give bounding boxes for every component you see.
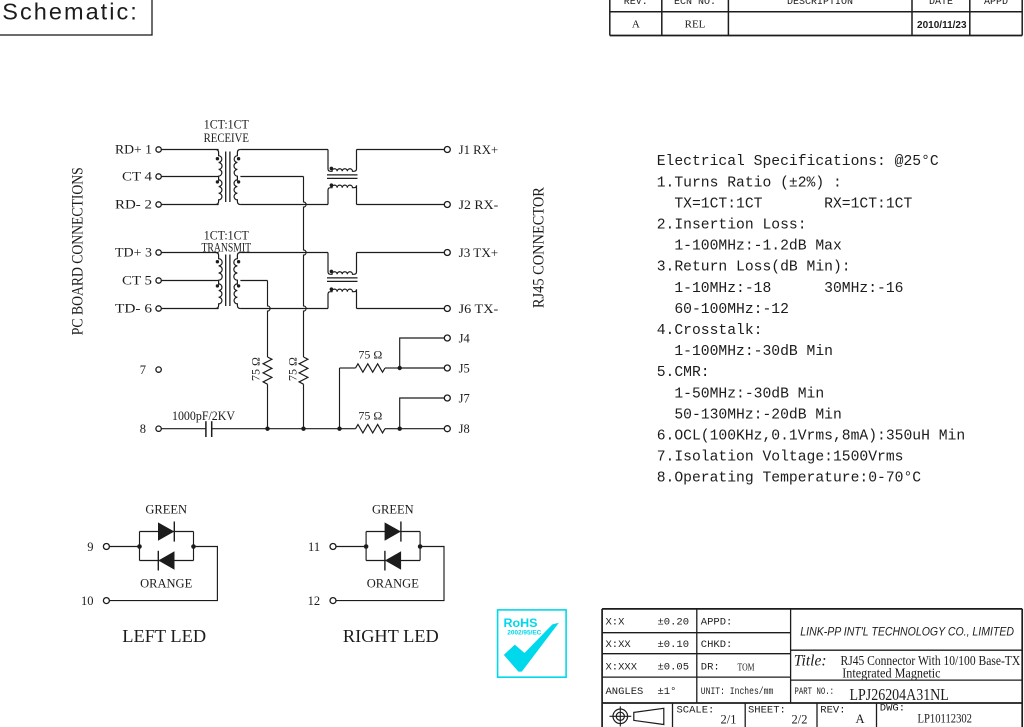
- svg-text:2.Insertion Loss:: 2.Insertion Loss:: [657, 218, 807, 234]
- capacitor C1 1000pF/2KV plates: [205, 421, 207, 437]
- diode LED1 orange: [158, 551, 174, 570]
- svg-text:SCALE:: SCALE:: [677, 705, 715, 717]
- svg-text:SHEET:: SHEET:: [748, 705, 786, 717]
- pin 12 terminal: [330, 598, 336, 604]
- wire pin 11: [336, 546, 366, 548]
- svg-text:ECN NO.: ECN NO.: [674, 0, 716, 8]
- svg-text:RIGHT LED: RIGHT LED: [343, 626, 439, 646]
- svg-text:LINK-PP INT'L TECHNOLOGY CO.,: LINK-PP INT'L TECHNOLOGY CO., LIMITED: [800, 624, 1014, 638]
- terminal J8: [444, 426, 450, 432]
- svg-text:CT 4: CT 4: [122, 170, 153, 184]
- svg-text:ANGLES: ANGLES: [606, 686, 644, 698]
- svg-text:±0.20: ±0.20: [658, 617, 690, 629]
- revision table grid: [609, 0, 611, 36]
- resistor R4 75ohm body: [356, 425, 386, 433]
- pin 8 terminal: [156, 426, 161, 431]
- wire T2 bottom to L2: [240, 308, 328, 310]
- choke L1 core: [327, 174, 358, 176]
- svg-text:6.OCL(100KHz,0.1Vrms,8mA):350u: 6.OCL(100KHz,0.1Vrms,8mA):350uH Min: [657, 429, 966, 445]
- svg-text:J3 TX+: J3 TX+: [459, 246, 499, 260]
- transformer T2 secondary dots: [237, 260, 240, 263]
- svg-text:REV.: REV.: [624, 0, 648, 8]
- svg-text:J4: J4: [459, 331, 471, 345]
- wire pin 9: [109, 546, 139, 548]
- svg-text:CT 5: CT 5: [122, 274, 152, 288]
- choke L1 dots: [330, 167, 334, 171]
- wire junction up to J4: [400, 338, 445, 368]
- terminal J3: [444, 250, 450, 256]
- svg-text:1-100MHz:-1.2dB Max: 1-100MHz:-1.2dB Max: [657, 239, 842, 255]
- svg-text:60-100MHz:-12: 60-100MHz:-12: [657, 302, 789, 318]
- wire junction to J8: [400, 428, 445, 430]
- svg-text:2/1: 2/1: [721, 713, 737, 727]
- svg-text:J2 RX-: J2 RX-: [459, 198, 499, 212]
- transformer T2 secondary winding: [234, 253, 241, 309]
- projection symbol: [613, 709, 628, 724]
- LED2 branch frame: [366, 532, 420, 561]
- svg-text:DATE: DATE: [929, 0, 953, 8]
- wire junction up to J7: [400, 398, 445, 429]
- wire R3 to junction J5: [385, 367, 400, 369]
- LED1 branch frame: [140, 532, 194, 561]
- svg-text:LPJ26204A31NL: LPJ26204A31NL: [850, 685, 949, 704]
- wire node CT-TX vertical (hops J6): [268, 281, 271, 358]
- svg-text:A: A: [856, 712, 865, 726]
- junction J8 node: [398, 427, 402, 431]
- svg-text:REV:: REV:: [820, 705, 845, 717]
- junction rail R1: [265, 427, 269, 431]
- junction LED1 left: [137, 544, 142, 549]
- svg-text:RECEIVE: RECEIVE: [204, 131, 250, 145]
- svg-text:APPD: APPD: [984, 0, 1008, 8]
- choke L1 lower winding: [328, 185, 357, 204]
- svg-text:CHKD:: CHKD:: [701, 639, 733, 651]
- pin 5 terminal: [156, 278, 161, 283]
- svg-text:±1°: ±1°: [658, 686, 677, 698]
- svg-text:2010/11/23: 2010/11/23: [917, 20, 967, 31]
- svg-text:J8: J8: [459, 422, 470, 436]
- svg-text:3.Return Loss(dB Min):: 3.Return Loss(dB Min):: [657, 260, 851, 276]
- svg-text:PC BOARD CONNECTIONS: PC BOARD CONNECTIONS: [69, 167, 87, 335]
- resistor R1 lead to rail: [267, 384, 269, 429]
- svg-text:DR:: DR:: [701, 661, 720, 673]
- svg-text:LEFT LED: LEFT LED: [122, 626, 206, 646]
- pin 2 terminal: [156, 202, 161, 207]
- transformer T1 primary dots: [216, 157, 219, 160]
- choke L2 upper winding: [328, 253, 357, 275]
- svg-text:Integrated Magnetic: Integrated Magnetic: [842, 666, 941, 681]
- choke L1 upper winding: [328, 150, 357, 172]
- svg-text:J1 RX+: J1 RX+: [459, 143, 499, 157]
- svg-text:RoHS: RoHS: [504, 616, 538, 630]
- svg-text:X:X: X:X: [606, 617, 626, 629]
- wire T2 center tap: [240, 280, 267, 282]
- wire pin 1 to transformer: [161, 149, 218, 151]
- transformer T2 primary dots: [216, 260, 219, 263]
- junction LED2 right: [418, 544, 423, 549]
- wire LED2 return: [336, 547, 444, 601]
- svg-text:REL: REL: [685, 19, 706, 31]
- wire branch to R3: [340, 367, 356, 369]
- wire pin 4 to transformer: [161, 176, 218, 178]
- svg-text:PART NO.:: PART NO.:: [795, 686, 835, 698]
- svg-text:TOM: TOM: [738, 661, 755, 673]
- wire junction to J5: [400, 367, 445, 369]
- svg-text:1-100MHz:-30dB Min: 1-100MHz:-30dB Min: [657, 344, 833, 360]
- svg-text:1-10MHz:-18 30MHz:-16: 1-10MHz:-18 30MHz:-16: [657, 281, 904, 297]
- transformer T2 primary winding: [216, 253, 223, 309]
- svg-text:DESCRIPTION: DESCRIPTION: [787, 0, 853, 8]
- bottom strip dividers: [672, 703, 674, 727]
- svg-text:TD+ 3: TD+ 3: [115, 246, 152, 260]
- junction J5 node: [398, 366, 402, 370]
- svg-text:TX=1CT:1CT RX=1CT:1CT: TX=1CT:1CT RX=1CT:1CT: [657, 196, 913, 212]
- svg-text:5.CMR:: 5.CMR:: [657, 365, 710, 381]
- resistor R2 75ohm body: [299, 357, 308, 384]
- svg-text:1000pF/2KV: 1000pF/2KV: [172, 409, 235, 423]
- schematic title box: [0, 0, 152, 35]
- title block grid: [602, 608, 1022, 610]
- terminal J1: [444, 147, 450, 153]
- transformer T1 secondary dots: [237, 157, 240, 160]
- wire R4 to junction J8: [385, 428, 400, 430]
- svg-text:11: 11: [308, 540, 320, 554]
- wire L1 to J1: [357, 149, 445, 151]
- svg-text:APPD:: APPD:: [701, 617, 733, 629]
- svg-text:J7: J7: [459, 391, 470, 405]
- wire node CT-RX vertical (hops J2,J3,J6): [304, 177, 307, 358]
- svg-text:7: 7: [140, 363, 146, 377]
- svg-text:50-130MHz:-20dB Min: 50-130MHz:-20dB Min: [657, 407, 842, 423]
- svg-text:Title:: Title:: [794, 652, 827, 669]
- junction rail R2: [301, 427, 305, 431]
- svg-text:GREEN: GREEN: [372, 502, 414, 516]
- wire L2 to J6: [357, 308, 445, 310]
- wire pin 3 to transformer: [161, 252, 218, 254]
- choke L2 lower winding: [328, 289, 357, 308]
- wire capacitor to rail: [212, 428, 340, 430]
- svg-text:J6 TX-: J6 TX-: [459, 302, 499, 316]
- svg-text:UNIT: Inches/mm: UNIT: Inches/mm: [701, 686, 774, 698]
- pin 6 terminal: [156, 306, 161, 311]
- terminal J6: [444, 306, 450, 312]
- RoHS logo: [498, 610, 566, 677]
- svg-text:75 Ω: 75 Ω: [285, 357, 299, 381]
- terminal J2: [444, 202, 450, 208]
- svg-text:RD+ 1: RD+ 1: [115, 143, 152, 157]
- resistor R1 75ohm body: [263, 357, 272, 384]
- terminal J7: [444, 395, 450, 401]
- wire rail to R4: [340, 428, 356, 430]
- svg-text:8.Operating Temperature:0-70°C: 8.Operating Temperature:0-70°C: [657, 471, 922, 487]
- pin 9 terminal: [103, 544, 109, 550]
- svg-text:J5: J5: [459, 361, 470, 375]
- transformer T1 core: [225, 152, 227, 203]
- svg-text:X:XXX: X:XXX: [606, 661, 638, 673]
- svg-text:±0.10: ±0.10: [658, 639, 690, 651]
- pin 10 terminal: [103, 598, 109, 604]
- resistor R2 lead to rail: [303, 384, 305, 429]
- wire pin 2 to transformer: [161, 204, 218, 206]
- wire LED1 return: [109, 547, 217, 601]
- svg-text:Schematic:: Schematic:: [2, 0, 137, 25]
- svg-text:75 Ω: 75 Ω: [358, 348, 382, 362]
- wire T1 bottom to L1: [240, 204, 328, 206]
- wire pin 6 to transformer: [161, 308, 218, 310]
- svg-text:1.Turns Ratio (±2%) :: 1.Turns Ratio (±2%) :: [657, 175, 842, 191]
- pin 7 terminal: [156, 367, 161, 372]
- terminal J4: [444, 335, 450, 341]
- wire pin 5 to transformer: [161, 280, 218, 282]
- svg-text:±0.05: ±0.05: [658, 661, 690, 673]
- svg-text:9: 9: [87, 540, 93, 554]
- transformer T1 secondary winding: [234, 150, 240, 205]
- wire T1 top to L1: [240, 149, 328, 151]
- svg-text:10: 10: [81, 594, 94, 608]
- pin 3 terminal: [156, 250, 161, 255]
- diode LED2 orange: [385, 551, 401, 570]
- svg-text:RD- 2: RD- 2: [115, 198, 152, 212]
- svg-text:2002/95/EC: 2002/95/EC: [507, 630, 541, 637]
- svg-text:X:XX: X:XX: [606, 639, 632, 651]
- wire T2 top to L2: [240, 252, 328, 254]
- svg-text:DWG:: DWG:: [880, 703, 905, 715]
- wire L1 to J2: [357, 204, 445, 206]
- svg-text:ORANGE: ORANGE: [367, 577, 419, 591]
- choke L2 dots: [330, 270, 334, 274]
- pin 1 terminal: [156, 147, 161, 152]
- transformer T2 core: [225, 255, 227, 307]
- choke L2 core: [327, 277, 358, 279]
- svg-text:TD- 6: TD- 6: [115, 302, 152, 316]
- wire pin 8 to capacitor: [161, 428, 206, 430]
- svg-text:8: 8: [140, 422, 146, 436]
- svg-text:GREEN: GREEN: [145, 502, 187, 516]
- pin 4 terminal: [156, 174, 161, 179]
- svg-text:12: 12: [308, 594, 321, 608]
- svg-text:ORANGE: ORANGE: [140, 577, 192, 591]
- svg-text:LP10112302: LP10112302: [918, 712, 973, 726]
- svg-text:Electrical Specifications: @25: Electrical Specifications: @25°C: [657, 154, 939, 170]
- wire T1 center tap: [240, 176, 303, 178]
- resistor R3 75ohm body: [356, 364, 386, 372]
- svg-text:1-50MHz:-30dB Min: 1-50MHz:-30dB Min: [657, 386, 824, 402]
- svg-text:2/2: 2/2: [792, 713, 808, 727]
- diode LED2 green: [385, 522, 401, 540]
- terminal J5: [444, 365, 450, 371]
- pin 11 terminal: [330, 544, 336, 550]
- svg-text:4.Crosstalk:: 4.Crosstalk:: [657, 323, 763, 339]
- junction LED2 left: [364, 544, 369, 549]
- svg-text:75 Ω: 75 Ω: [248, 357, 262, 381]
- wire rail branch up: [339, 368, 341, 429]
- svg-text:75 Ω: 75 Ω: [358, 409, 382, 423]
- svg-text:A: A: [632, 19, 640, 31]
- wire L2 to J3: [357, 252, 445, 254]
- svg-text:RJ45 CONNECTOR: RJ45 CONNECTOR: [529, 187, 547, 308]
- svg-text:1CT:1CT: 1CT:1CT: [204, 118, 249, 132]
- svg-text:7.Isolation Voltage:1500Vrms: 7.Isolation Voltage:1500Vrms: [657, 450, 904, 466]
- transformer T1 primary winding: [216, 150, 222, 205]
- junction LED1 right: [191, 544, 196, 549]
- diode LED1 green: [158, 522, 174, 540]
- junction rail branch: [337, 427, 341, 431]
